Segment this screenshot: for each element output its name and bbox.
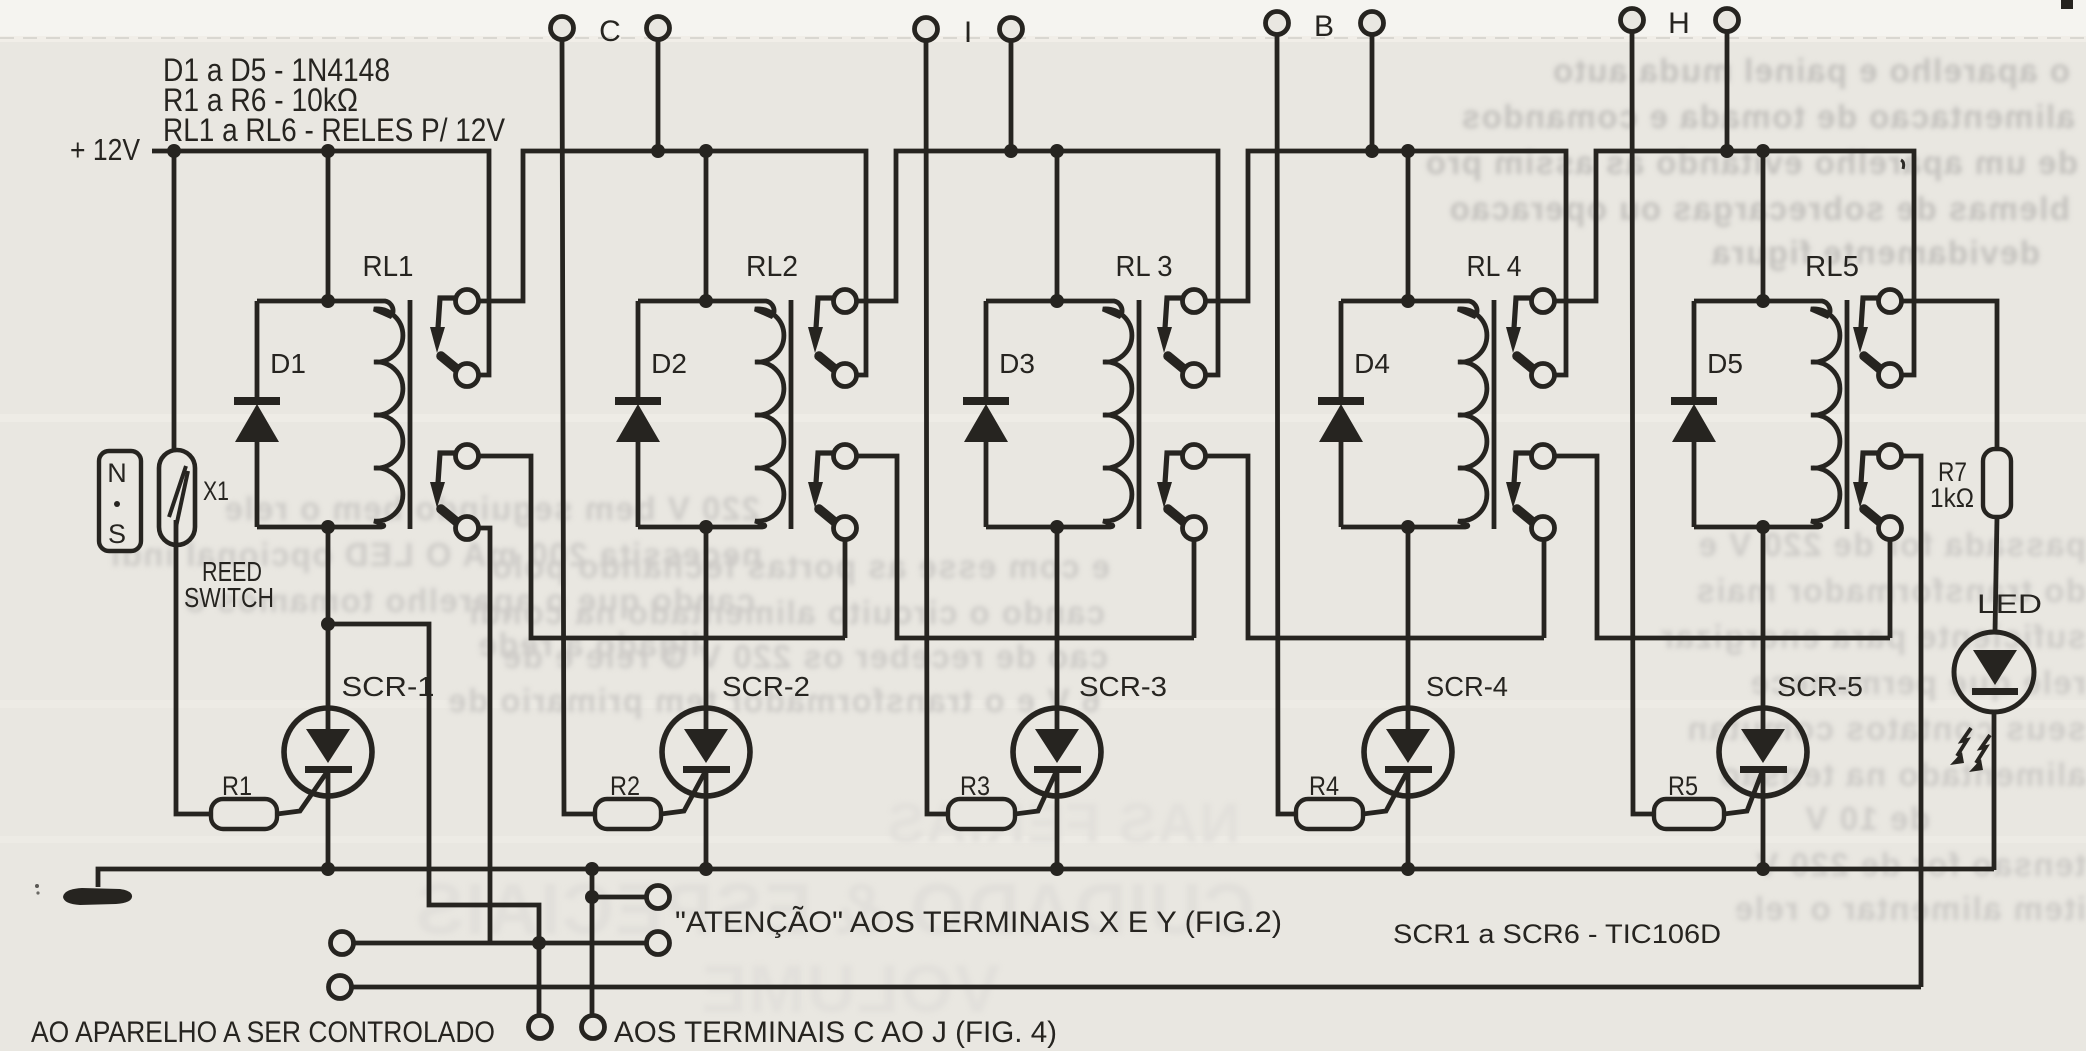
relay RL4 bottom contact: moving arrow bbox=[1514, 453, 1532, 483]
wire: terminal C left circle down to R2 bbox=[562, 39, 595, 814]
svg-text:seus contatos comutan: seus contatos comutan bbox=[1686, 710, 2086, 747]
wire: coil bottom to SCR-1 anode bbox=[326, 527, 331, 729]
relay RL3 top contact: moving arrow bbox=[1165, 298, 1183, 328]
wire: reed switch to R1 bbox=[176, 520, 211, 814]
wire: RL3 pole contact drop to chain line bbox=[1192, 539, 1197, 638]
junction: spine on coil top wire stage 4 bbox=[1401, 294, 1415, 308]
wire: coil bottom to SCR-4 anode bbox=[1406, 527, 1411, 729]
terminal circle I1 bbox=[915, 18, 938, 41]
wire: long output line y987 bbox=[352, 985, 1921, 990]
wire: SCR-5 cathode to ground rail bbox=[1761, 771, 1766, 869]
junction: terminal I right on rail bbox=[1004, 144, 1018, 158]
relay RL2 top contact: lever bbox=[819, 356, 836, 370]
relay RL1 bottom contact: lever bbox=[441, 509, 458, 523]
wire: SCR-2 gate from R2 bbox=[661, 772, 705, 814]
resistor R5 10k bbox=[1654, 799, 1724, 829]
junction: spine on rail stage 3 bbox=[1050, 144, 1064, 158]
wire: RL4 NO contact down to chain line y638 bbox=[1554, 456, 1890, 638]
wire: terminal I right circle down to +12V rail bbox=[1009, 40, 1014, 151]
svg-text:de 10 V: de 10 V bbox=[1804, 800, 1930, 837]
relay RL5 top contact: lever bbox=[1864, 356, 1881, 370]
relay RL3 core bar bbox=[1137, 300, 1142, 529]
svg-text:1kΩ: 1kΩ bbox=[1930, 483, 1974, 513]
wire: rail to relay RL1 coil top (stage spine upper) bbox=[326, 151, 331, 301]
relay RL1 core bar bbox=[408, 300, 413, 529]
relay RL2 bottom contact: lever bbox=[819, 509, 836, 523]
svg-text:AOS TERMINAIS C AO J (FIG. 4): AOS TERMINAIS C AO J (FIG. 4) bbox=[614, 1016, 1057, 1049]
relay RL1 top contact: moving arrow bbox=[438, 298, 456, 328]
svg-text:R1: R1 bbox=[222, 771, 252, 801]
svg-text:R5: R5 bbox=[1668, 771, 1698, 801]
svg-text:alimentado na tensao: alimentado na tensao bbox=[1719, 756, 2086, 793]
junction: spine on rail stage 4 bbox=[1401, 144, 1415, 158]
svg-text:D3: D3 bbox=[999, 348, 1035, 379]
resistor R3 10k bbox=[948, 799, 1015, 829]
junction: SCR-4 cathode on ground rail bbox=[1401, 862, 1415, 876]
svg-text:R4: R4 bbox=[1309, 771, 1339, 801]
diode D3 bbox=[984, 301, 989, 398]
wire: SCR-3 gate from R3 bbox=[1015, 772, 1056, 814]
wire: +12V rail tap down to reed switch X1 bbox=[172, 151, 177, 472]
relay RL4 core bar bbox=[1492, 300, 1497, 529]
junction: spine on coil top wire stage 3 bbox=[1050, 294, 1064, 308]
relay RL1 top contact terminal NO bbox=[456, 290, 479, 313]
relay RL2 coil bbox=[638, 301, 784, 527]
relay RL4 top contact: lever bbox=[1517, 356, 1534, 370]
+12V rail segment stage 2 bbox=[478, 151, 866, 375]
svg-text:alimentacao de tomada e comand: alimentacao de tomada e comandos bbox=[1460, 98, 2075, 135]
junction: spine on coil top wire stage 2 bbox=[699, 294, 713, 308]
svg-text:RL1: RL1 bbox=[363, 251, 414, 283]
svg-text:R3: R3 bbox=[960, 771, 990, 801]
junction: spine on coil bottom wire stage 4 bbox=[1401, 520, 1415, 534]
svg-text:I: I bbox=[964, 16, 972, 49]
wire: terminal I left circle down to R3 bbox=[926, 40, 948, 814]
relay RL5 bottom contact: moving arrow bbox=[1861, 453, 1879, 483]
wire: RL5 NO contact to R7 bbox=[1901, 301, 1997, 449]
wire: terminal H left circle down to R5 bbox=[1632, 31, 1654, 814]
junction: branch on SCR-1 cathode line bbox=[321, 617, 335, 631]
relay RL5 top contact: moving arrow bbox=[1861, 298, 1879, 328]
+12V rail segment stage 1 bbox=[152, 151, 489, 375]
junction: spine on coil top wire stage 1 bbox=[321, 294, 335, 308]
wire: SCR-1 cathode to ground rail bbox=[326, 771, 331, 869]
SCR SCR-2 (thyristor) bbox=[662, 708, 750, 796]
diode D2 bbox=[636, 301, 641, 398]
wire: RL1 NO contact down to chain line y638 bbox=[478, 456, 845, 638]
svg-text:SCR-4: SCR-4 bbox=[1426, 671, 1508, 702]
svg-text:D4: D4 bbox=[1354, 348, 1390, 379]
junction: reed tap on rail bbox=[167, 144, 181, 158]
wire: RL2 NO contact down to chain line y638 bbox=[856, 456, 1194, 638]
wire: SCR-5 gate from R5 bbox=[1724, 772, 1762, 814]
terminal circle B2 bbox=[1361, 12, 1384, 35]
svg-text:LED: LED bbox=[1977, 589, 2042, 619]
svg-text:o aparelho e painel muda auto: o aparelho e painel muda auto bbox=[1552, 52, 2070, 89]
svg-text:R2: R2 bbox=[610, 771, 640, 801]
svg-text:item alimentar o rele: item alimentar o rele bbox=[1734, 890, 2086, 927]
wire: rail to relay RL2 coil top (stage spine upper) bbox=[704, 151, 709, 301]
relay RL1 bottom contact: moving arrow bbox=[438, 453, 456, 483]
wire: RL5 NO contact down to output line y987 bbox=[1901, 456, 1921, 987]
svg-text:D2: D2 bbox=[651, 348, 687, 379]
relay RL4 top contact: moving arrow bbox=[1514, 298, 1532, 328]
relay RL2 bottom contact terminal NO bbox=[834, 445, 857, 468]
svg-text:D1: D1 bbox=[270, 348, 306, 379]
svg-text:D5: D5 bbox=[1707, 348, 1743, 379]
SCR SCR-5 (thyristor) bbox=[1719, 708, 1807, 796]
relay RL4 top contact terminal NO bbox=[1532, 290, 1555, 313]
relay RL2 top contact: moving arrow bbox=[816, 298, 834, 328]
wire: output row y943 bbox=[353, 941, 647, 946]
svg-text:S: S bbox=[108, 519, 126, 549]
svg-text:220 V bem seguindo bem o rele: 220 V bem seguindo bem o rele bbox=[223, 490, 760, 527]
+12V rail segment stage 3 bbox=[856, 151, 1218, 375]
svg-text:SCR-1: SCR-1 bbox=[342, 671, 435, 702]
relay RL3 top contact terminal pole bbox=[1183, 364, 1206, 387]
relay RL4 bottom contact: lever bbox=[1517, 509, 1534, 523]
+12V rail segment stage 4 bbox=[1205, 151, 1566, 375]
relay RL2 top contact terminal pole bbox=[834, 364, 857, 387]
SCR SCR-4 (thyristor) bbox=[1364, 708, 1452, 796]
relay RL1 top contact terminal pole bbox=[456, 364, 479, 387]
svg-text:"ATENÇÃO" AOS TERMINAIS X E Y: "ATENÇÃO" AOS TERMINAIS X E Y (FIG.2) bbox=[675, 905, 1282, 939]
resistor R1 10k bbox=[211, 799, 277, 829]
svg-text:SWITCH: SWITCH bbox=[184, 582, 274, 613]
wire: SCR-1 cathode branch to output terminal row bbox=[328, 624, 539, 1016]
LED bbox=[1954, 632, 2034, 712]
magnet N-S bbox=[99, 451, 141, 551]
+12V rail segment stage 5 bbox=[1554, 151, 1914, 375]
terminal circle H1 bbox=[1621, 9, 1644, 32]
relay RL5 bottom contact terminal NO bbox=[1879, 445, 1902, 468]
relay RL2 core bar bbox=[789, 300, 794, 529]
junction: spine on rail stage 1 bbox=[321, 144, 335, 158]
wire: SCR-1 gate from R1 bbox=[277, 772, 327, 814]
relay RL1 top contact: lever bbox=[441, 356, 458, 370]
relay RL3 top contact: lever bbox=[1168, 356, 1185, 370]
reed switch X1 bbox=[159, 450, 195, 545]
junction: SCR-5 cathode on ground rail bbox=[1756, 862, 1770, 876]
wire: RL5 pole contact drop to chain line bbox=[1888, 539, 1893, 638]
junction: stub on riser bbox=[585, 890, 599, 904]
relay RL5 core bar bbox=[1845, 300, 1850, 529]
wire: RL4 pole contact drop to chain line bbox=[1542, 539, 1547, 638]
relay RL2 bottom contact terminal pole bbox=[834, 517, 857, 540]
relay RL5 bottom contact terminal pole bbox=[1879, 517, 1902, 540]
svg-text:RL 3: RL 3 bbox=[1116, 251, 1173, 283]
svg-text:RL 4: RL 4 bbox=[1467, 251, 1522, 283]
junction: spine on coil bottom wire stage 5 bbox=[1756, 520, 1770, 534]
relay RL4 bottom contact terminal pole bbox=[1532, 517, 1555, 540]
relay RL2 bottom contact: moving arrow bbox=[816, 453, 834, 483]
terminal circle H2 bbox=[1716, 9, 1739, 32]
junction: terminal C right on rail bbox=[651, 144, 665, 158]
svg-text:SCR1 a SCR6 - TIC106D: SCR1 a SCR6 - TIC106D bbox=[1393, 919, 1721, 949]
junction: spine on rail stage 5 bbox=[1756, 144, 1770, 158]
relay RL5 coil bbox=[1694, 301, 1840, 527]
wire: coil bottom to SCR-2 anode bbox=[704, 527, 709, 729]
wire: SCR-3 cathode to ground rail bbox=[1055, 771, 1060, 869]
diode D4 bbox=[1339, 301, 1344, 398]
relay RL3 top contact terminal NO bbox=[1183, 290, 1206, 313]
wire: SCR-4 cathode to ground rail bbox=[1406, 771, 1411, 869]
svg-text:N: N bbox=[107, 458, 127, 488]
SCR SCR-3 (thyristor) bbox=[1013, 708, 1101, 796]
terminal circle B1 bbox=[1266, 12, 1289, 35]
resistor R2 10k bbox=[595, 799, 661, 829]
junction: spine on coil bottom wire stage 1 bbox=[321, 520, 335, 534]
relay RL1 coil bbox=[257, 301, 403, 527]
terminal circle long line left bbox=[329, 976, 352, 999]
relay RL4 bottom contact terminal NO bbox=[1532, 445, 1555, 468]
terminal circle C2 bbox=[647, 17, 670, 40]
svg-text:ligado a rede: ligado a rede bbox=[477, 626, 700, 663]
relay RL3 bottom contact: lever bbox=[1168, 509, 1185, 523]
wire: terminal C right circle down to +12V rail bbox=[656, 39, 661, 151]
diode D5 bbox=[1692, 301, 1697, 398]
junction: SCR-2 cathode on ground rail bbox=[699, 862, 713, 876]
wire: R7 to LED bbox=[1995, 517, 1997, 632]
junction: riser on ground rail bbox=[585, 862, 599, 876]
svg-text:devidamente figura: devidamente figura bbox=[1710, 234, 2040, 271]
wire: rail to relay RL5 coil top (stage spine upper) bbox=[1761, 151, 1766, 301]
relay RL1 bottom contact terminal NO bbox=[456, 445, 479, 468]
wire: LED cathode to ground rail bbox=[1992, 712, 1997, 870]
svg-text:AO APARELHO A SER CONTROLADO: AO APARELHO A SER CONTROLADO bbox=[31, 1016, 495, 1049]
svg-text:B: B bbox=[1314, 10, 1334, 43]
terminal circle bottom pair right bbox=[582, 1016, 605, 1039]
terminal circle C1 bbox=[551, 17, 574, 40]
terminal circle ATENCAO upper bbox=[647, 886, 670, 909]
ground symbol bbox=[63, 888, 132, 905]
SCR SCR-1 (thyristor) bbox=[284, 708, 372, 796]
relay RL3 bottom contact: moving arrow bbox=[1165, 453, 1183, 483]
svg-text:+ 12V: + 12V bbox=[70, 132, 140, 167]
terminal circle output row right bbox=[647, 932, 670, 955]
relay RL4 top contact terminal pole bbox=[1532, 364, 1555, 387]
junction: terminal B right on rail bbox=[1365, 144, 1379, 158]
diode D1 bbox=[255, 301, 260, 398]
svg-text:RL2: RL2 bbox=[746, 251, 798, 283]
relay RL5 top contact terminal NO bbox=[1879, 290, 1902, 313]
terminal circle I2 bbox=[1000, 18, 1023, 41]
junction: spine on coil bottom wire stage 3 bbox=[1050, 520, 1064, 534]
svg-text:H: H bbox=[1668, 7, 1690, 40]
LED light arrows bbox=[1957, 728, 1971, 756]
svg-text:SCR-5: SCR-5 bbox=[1777, 671, 1863, 702]
junction: spine on coil bottom wire stage 2 bbox=[699, 520, 713, 534]
wire: ground riser to ATENCAO terminal bbox=[590, 869, 595, 1016]
svg-text:blemas de sobrecargas ou opera: blemas de sobrecargas ou operacao bbox=[1448, 190, 2070, 227]
ground rail bbox=[98, 869, 1994, 887]
svg-text:RL1 a RL6 - RELES P/ 12V: RL1 a RL6 - RELES P/ 12V bbox=[163, 112, 506, 148]
junction: SCR-3 cathode on ground rail bbox=[1050, 862, 1064, 876]
junction on row y943 bbox=[532, 936, 546, 950]
relay RL5 top contact terminal pole bbox=[1879, 364, 1902, 387]
svg-text:C: C bbox=[599, 15, 621, 48]
resistor R4 10k bbox=[1296, 799, 1363, 829]
junction: spine on coil top wire stage 5 bbox=[1756, 294, 1770, 308]
junction: SCR-1 cathode on ground rail bbox=[321, 862, 335, 876]
svg-text:NAS FERIAS: NAS FERIAS bbox=[886, 791, 1240, 854]
relay RL3 bottom contact terminal NO bbox=[1183, 445, 1206, 468]
wire: terminal B left circle down to R4 bbox=[1277, 34, 1296, 814]
terminal circle bottom pair left bbox=[529, 1016, 552, 1039]
wire: rail to relay RL4 coil top (stage spine upper) bbox=[1406, 151, 1411, 301]
wire: SCR-4 gate from R4 bbox=[1363, 772, 1407, 814]
resistor R7 1k bbox=[1983, 449, 2011, 517]
terminal circle output row left bbox=[331, 932, 354, 955]
wire: terminal H right circle down to +12V rail bbox=[1725, 31, 1730, 151]
wire: rail to relay RL3 coil top (stage spine upper) bbox=[1055, 151, 1060, 301]
wire: RL1 pole contact down to terminal row bbox=[478, 528, 490, 943]
wire: RL2 pole contact drop to chain line bbox=[843, 539, 848, 638]
svg-text:RL5: RL5 bbox=[1805, 251, 1859, 283]
relay RL5 bottom contact: lever bbox=[1864, 509, 1881, 523]
svg-text:SCR-2: SCR-2 bbox=[722, 671, 810, 702]
wire: terminal B right circle down to +12V rail bbox=[1370, 34, 1375, 151]
junction: spine on rail stage 2 bbox=[699, 144, 713, 158]
wire: RL3 NO contact down to chain line y638 bbox=[1205, 456, 1544, 638]
wire: SCR-2 cathode to ground rail bbox=[704, 771, 709, 869]
wire: coil bottom to SCR-5 anode bbox=[1761, 527, 1766, 729]
relay RL1 bottom contact terminal pole bbox=[456, 517, 479, 540]
relay RL4 coil bbox=[1341, 301, 1487, 527]
junction: terminal H right on rail bbox=[1720, 144, 1734, 158]
relay RL3 coil bbox=[986, 301, 1132, 527]
relay RL3 bottom contact terminal pole bbox=[1183, 517, 1206, 540]
svg-text:X1: X1 bbox=[203, 476, 229, 506]
wire: coil bottom to SCR-3 anode bbox=[1055, 527, 1060, 729]
svg-text:SCR-3: SCR-3 bbox=[1079, 671, 1167, 702]
relay RL2 top contact terminal NO bbox=[834, 290, 857, 313]
wire: stub to ATENCAO upper terminal bbox=[592, 895, 647, 900]
